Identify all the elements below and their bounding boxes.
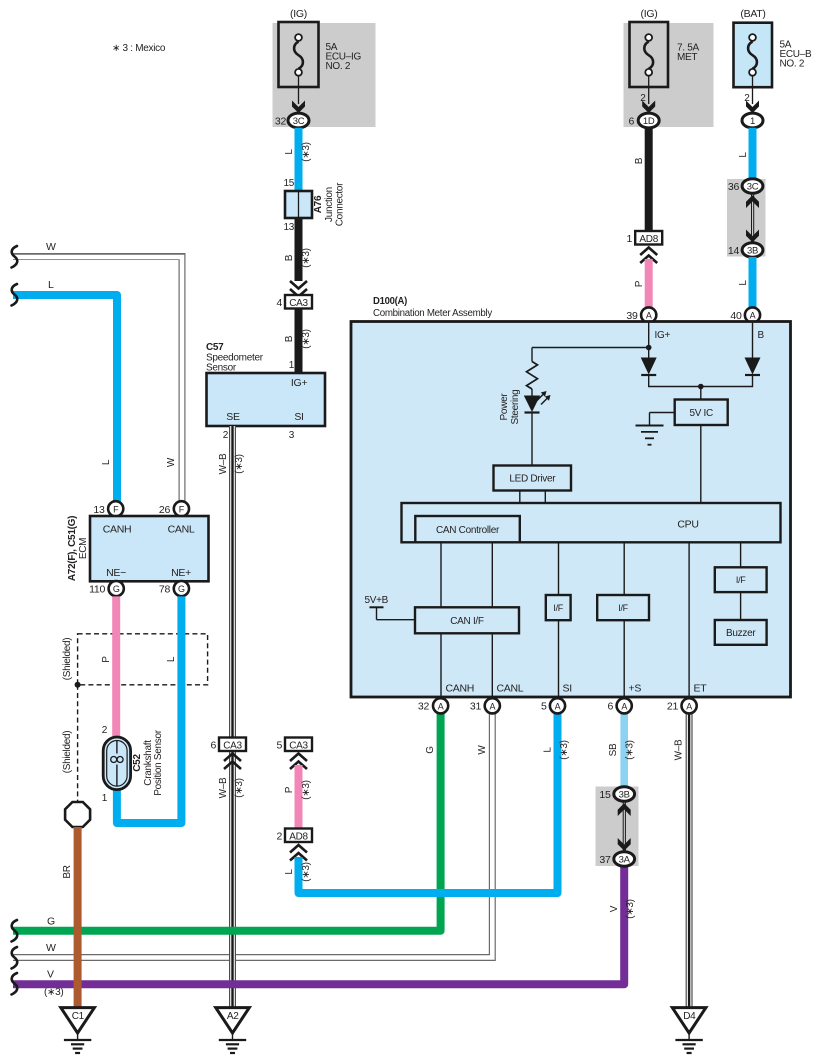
svg-text:A: A: [555, 701, 561, 711]
svg-text:14: 14: [728, 245, 740, 257]
wire B 1D to AD8 pin 1: [634, 128, 649, 231]
svg-text:ET: ET: [694, 683, 708, 695]
svg-text:C52: C52: [132, 754, 143, 772]
svg-text:(∗3): (∗3): [625, 899, 636, 918]
junction dot diode join: [698, 384, 704, 390]
svg-text:I/F: I/F: [553, 603, 563, 613]
I/F block +S: [597, 595, 649, 620]
svg-text:Buzzer: Buzzer: [726, 628, 756, 639]
svg-text:15: 15: [283, 178, 294, 189]
svg-text:(∗3): (∗3): [44, 987, 63, 998]
continuation squiggle for W: [12, 246, 18, 268]
svg-text:31: 31: [470, 701, 482, 713]
I/F block SI: [546, 595, 571, 620]
wire CANL internal: [491, 542, 493, 698]
wire +S internal: [623, 542, 625, 698]
continuation squiggle for V bus: [12, 973, 18, 995]
svg-text:(Shielded): (Shielded): [62, 731, 73, 774]
svg-text:L: L: [284, 869, 295, 875]
fuse block background left: [273, 23, 376, 127]
wire to 5V IC: [700, 387, 702, 400]
svg-text:1D: 1D: [643, 116, 655, 127]
svg-text:AD8: AD8: [289, 831, 308, 842]
svg-text:V: V: [47, 969, 54, 981]
I/F block buzzer: [715, 567, 767, 592]
junction connector A76: [283, 178, 345, 233]
svg-text:I/F: I/F: [736, 575, 746, 585]
svg-text:3A: 3A: [619, 855, 631, 866]
arrow into pin 32: [292, 101, 305, 114]
svg-text:CANH: CANH: [103, 524, 132, 536]
svg-text:SI: SI: [294, 411, 303, 423]
svg-text:1: 1: [626, 233, 632, 245]
svg-text:(∗3): (∗3): [234, 454, 245, 473]
connector oval 3B pin 14: [728, 243, 763, 257]
svg-text:B: B: [284, 254, 295, 261]
svg-text:W–B: W–B: [218, 777, 229, 798]
svg-text:(∗3): (∗3): [234, 778, 245, 797]
svg-text:+S: +S: [629, 683, 642, 695]
5V+B node: [365, 595, 416, 620]
svg-text:L: L: [101, 459, 112, 465]
continuation squiggle for L: [12, 284, 18, 306]
svg-text:(∗3): (∗3): [559, 740, 570, 759]
svg-text:(∗3): (∗3): [301, 142, 312, 161]
fuse F1 5A ECU-IG NO.2: [279, 8, 362, 104]
svg-text:(∗3): (∗3): [625, 740, 636, 759]
arrow up into 3C: [746, 195, 759, 208]
buzzer block: [715, 620, 767, 645]
svg-text:2: 2: [276, 830, 282, 842]
chevron arrows out of AD8 pin 1: [640, 248, 657, 264]
continuation squiggle for W bus: [12, 947, 18, 969]
svg-text:A: A: [646, 311, 652, 321]
connector AD8 pin 1: [626, 231, 662, 245]
svg-text:(IG): (IG): [641, 8, 658, 20]
svg-text:13: 13: [93, 504, 105, 516]
shield ground octagon: [65, 802, 90, 827]
meter pin 6 A: [607, 698, 631, 713]
svg-text:ECM: ECM: [78, 538, 89, 559]
LED power steering indicator: [499, 390, 551, 425]
wire L 3B to pin 40: [738, 257, 753, 308]
wire SI internal: [558, 542, 560, 698]
resistor (LED series): [527, 362, 538, 389]
svg-text:D4: D4: [683, 1011, 696, 1022]
svg-text:C1: C1: [72, 1011, 85, 1022]
fuse F2 7.5A MET: [630, 8, 700, 104]
bus wire G (horizontal, to CANH pin 32): [13, 712, 441, 931]
svg-text:L: L: [166, 656, 177, 662]
connector pass-through background 3C/3B right: [727, 179, 766, 257]
wire L entering from left (CANH): [13, 279, 117, 502]
meter pin 40 A: [730, 307, 760, 322]
shielded cable boundary (dashed): [62, 634, 208, 685]
svg-text:2: 2: [102, 725, 108, 736]
regulator 5V IC: [675, 400, 728, 426]
svg-text:(IG): (IG): [290, 8, 307, 20]
svg-text:(BAT): (BAT): [740, 8, 765, 20]
svg-text:D100(A): D100(A): [373, 296, 407, 307]
svg-text:W: W: [477, 745, 488, 755]
svg-text:37: 37: [599, 854, 611, 866]
wire W entering from left (plain white): [13, 241, 182, 502]
pin 6 connector oval 1D: [628, 113, 659, 128]
wire W-B ET pin 21 to ground D4: [674, 712, 690, 1009]
connector AD8 pin 2: [276, 829, 312, 843]
meter pin 31 A: [470, 698, 500, 713]
ECM pin 26 F: [159, 501, 189, 516]
svg-text:26: 26: [159, 504, 171, 516]
connector oval 3A pin 37: [599, 852, 634, 866]
svg-text:3B: 3B: [619, 790, 630, 801]
connector pass-through background 3B/3A bottom: [596, 787, 639, 867]
connector oval 3B pin 15: [599, 787, 634, 801]
meter pin 21 A: [667, 698, 697, 713]
connector oval 3C pin 36: [728, 179, 763, 193]
svg-text:(∗3): (∗3): [301, 862, 312, 881]
svg-text:W: W: [46, 241, 56, 253]
svg-text:P: P: [634, 280, 645, 287]
svg-text:21: 21: [667, 701, 679, 713]
svg-text:CAN Controller: CAN Controller: [436, 525, 500, 536]
continuation squiggle for G bus: [12, 920, 18, 942]
svg-text:13: 13: [283, 222, 294, 233]
diode D1 (IG+): [641, 358, 657, 376]
wire ET internal: [688, 542, 690, 698]
wire L (IG to junction A76): [284, 128, 312, 191]
svg-text:Position Sensor: Position Sensor: [153, 729, 164, 796]
svg-text:∗ 3 : Mexico: ∗ 3 : Mexico: [112, 43, 166, 54]
svg-text:IG+: IG+: [655, 330, 671, 341]
svg-text:CANH: CANH: [446, 683, 475, 695]
svg-text:W–B: W–B: [674, 739, 685, 760]
svg-text:CPU: CPU: [677, 519, 698, 531]
ECM A72(F) C51(G): [67, 516, 209, 581]
speedometer sensor C57: [206, 342, 325, 441]
meter pin 5 A: [541, 698, 565, 713]
shield junction dot: [75, 682, 81, 688]
connector CA3 pin 5: [276, 738, 312, 752]
junction dot IG+: [646, 345, 652, 351]
wire CPU to I/F buzzer: [740, 542, 742, 620]
wire L oval 1 to 3C: [738, 128, 753, 180]
svg-text:W–B: W–B: [218, 453, 229, 474]
svg-text:5: 5: [541, 701, 547, 713]
svg-text:6: 6: [628, 116, 634, 128]
svg-text:1: 1: [102, 793, 108, 804]
svg-text:6: 6: [210, 739, 216, 751]
svg-text:Connector: Connector: [335, 182, 346, 226]
arrow up into 3B: [618, 803, 631, 816]
wire LED to LED driver: [531, 414, 533, 466]
svg-text:A: A: [438, 701, 444, 711]
svg-text:CANL: CANL: [168, 524, 195, 536]
junction wire between 3B and 3A: [622, 801, 624, 852]
svg-text:3C: 3C: [293, 116, 305, 127]
svg-text:A: A: [489, 701, 495, 711]
LED driver block: [494, 466, 572, 491]
wire B (CA3 to C57 pin 1): [284, 309, 312, 374]
svg-text:15: 15: [599, 789, 611, 801]
connector oval 1: [742, 113, 763, 128]
svg-text:W: W: [46, 942, 56, 954]
combination meter assembly D100(A): [351, 296, 791, 697]
wire B (A76 to CA3): [284, 218, 312, 281]
svg-text:L: L: [284, 149, 295, 155]
wire diode outputs join: [649, 375, 753, 387]
bus wire V (horizontal, from connector 3A): [13, 866, 636, 999]
svg-text:6: 6: [607, 701, 613, 713]
svg-text:5V IC: 5V IC: [689, 408, 713, 419]
svg-text:CA3: CA3: [223, 740, 242, 751]
diode D2 (B): [745, 358, 761, 376]
svg-text:1: 1: [289, 360, 295, 371]
ECM pin 13 F: [93, 501, 123, 516]
wire P AD8 to pin 39: [634, 259, 649, 308]
chevron arrows out of CA3 pin 5: [290, 754, 307, 770]
ground C1: [61, 1008, 95, 1053]
svg-text:SB: SB: [608, 743, 619, 756]
svg-text:A: A: [750, 311, 756, 321]
svg-text:Steering: Steering: [510, 390, 521, 425]
ground D4: [672, 1008, 706, 1053]
svg-text:NO. 2: NO. 2: [326, 61, 351, 72]
svg-text:2: 2: [223, 430, 229, 441]
connector CA3 pin 6: [210, 738, 246, 752]
svg-text:G: G: [425, 746, 436, 754]
chevron arrows into CA3 pin 4: [290, 281, 307, 297]
svg-text:SE: SE: [226, 411, 240, 423]
svg-text:78: 78: [159, 584, 171, 596]
svg-text:A: A: [686, 701, 692, 711]
svg-text:(∗3): (∗3): [301, 329, 312, 348]
svg-text:A: A: [621, 701, 627, 711]
svg-text:NE−: NE−: [106, 567, 126, 579]
junction wire between 3C and 3B: [751, 193, 753, 243]
svg-text:(Shielded): (Shielded): [62, 638, 73, 681]
arrow into oval 1: [746, 101, 759, 114]
svg-text:B: B: [284, 335, 295, 342]
svg-text:(∗3): (∗3): [301, 780, 312, 799]
chevron arrows out of AD8 pin 2: [290, 845, 307, 861]
node B internal wire: [752, 323, 754, 358]
svg-text:P: P: [101, 656, 112, 663]
svg-text:32: 32: [275, 116, 287, 128]
CAN I/F block: [415, 607, 519, 633]
svg-text:LED Driver: LED Driver: [509, 474, 556, 485]
svg-text:Power: Power: [499, 393, 510, 421]
svg-text:CAN I/F: CAN I/F: [450, 616, 484, 627]
wire P CA3 to AD8: [284, 765, 312, 829]
svg-text:A76: A76: [313, 195, 324, 213]
svg-text:(∗3): (∗3): [301, 248, 312, 267]
wire P NE- to crank sensor pin 2: [101, 596, 116, 737]
svg-text:1: 1: [750, 116, 755, 127]
svg-text:L: L: [48, 279, 54, 291]
svg-text:5: 5: [276, 739, 282, 751]
svg-text:NO. 2: NO. 2: [780, 59, 805, 70]
CAN controller block: [415, 516, 520, 542]
svg-text:SI: SI: [563, 683, 572, 695]
svg-text:AD8: AD8: [639, 234, 658, 245]
meter pin 39 A: [626, 307, 656, 322]
svg-text:W: W: [166, 457, 177, 467]
svg-text:36: 36: [728, 181, 740, 193]
svg-text:F: F: [179, 504, 185, 514]
svg-text:CA3: CA3: [289, 740, 308, 751]
crankshaft position sensor C52: [102, 725, 164, 804]
node IG+ internal wire: [648, 323, 650, 358]
svg-text:32: 32: [418, 701, 430, 713]
svg-text:A72(F), C51(G): A72(F), C51(G): [67, 516, 78, 581]
wire W-B speedometer SE to ground A2: [218, 426, 245, 1009]
svg-text:B: B: [758, 330, 765, 341]
svg-text:V: V: [609, 905, 620, 912]
svg-text:B: B: [634, 157, 645, 164]
fuse F3 5A ECU-B NO.2: [734, 8, 812, 104]
CPU block: [402, 503, 781, 542]
arrow down into 3B: [746, 230, 759, 243]
svg-text:CANL: CANL: [497, 683, 524, 695]
wire IG+ branch to resistor: [532, 347, 649, 349]
wire SB +S pin 6 to connector 3B: [608, 712, 636, 790]
ECM pin 78 G: [159, 581, 189, 596]
svg-text:CA3: CA3: [289, 298, 308, 309]
svg-text:BR: BR: [62, 865, 73, 878]
wire BR shield octagon to ground C1: [62, 827, 78, 1010]
svg-text:3: 3: [289, 430, 295, 441]
svg-text:3C: 3C: [747, 182, 759, 193]
svg-text:L: L: [738, 152, 749, 158]
fuse block background middle: [624, 23, 714, 127]
svg-text:IG+: IG+: [291, 377, 307, 389]
svg-text:G: G: [113, 584, 120, 594]
wire 5V IC to internal ground: [650, 412, 675, 414]
connector CA3 pin 4: [276, 295, 312, 309]
svg-text:L: L: [543, 747, 554, 753]
svg-text:G: G: [178, 584, 185, 594]
internal ground: [636, 426, 664, 445]
svg-text:C57: C57: [206, 342, 224, 353]
arrow down into 3A: [618, 838, 631, 851]
svg-text:Junction: Junction: [324, 187, 335, 222]
svg-text:I/F: I/F: [618, 603, 628, 613]
svg-text:3B: 3B: [747, 246, 758, 257]
svg-text:110: 110: [89, 584, 105, 596]
svg-text:F: F: [113, 504, 119, 514]
pin 32 connector oval 3C: [275, 113, 309, 128]
svg-text:P: P: [284, 786, 295, 793]
wire L NE+ to crank sensor pin 1: [117, 596, 181, 823]
svg-text:A2: A2: [227, 1011, 239, 1022]
svg-text:L: L: [738, 280, 749, 286]
chevron arrows out of CA3 pin 6: [224, 754, 241, 770]
svg-text:MET: MET: [677, 52, 697, 63]
arrow into pin 6: [642, 101, 655, 114]
shield drain dashed wire: [62, 685, 78, 802]
meter pin 32 A: [418, 698, 448, 713]
wire CANH internal: [440, 542, 442, 698]
bus wire W (horizontal, to CANL pin 31): [13, 712, 492, 958]
wire L AD8 to SI pin 5: [284, 712, 570, 893]
svg-text:Combination Meter Assembly: Combination Meter Assembly: [373, 308, 492, 319]
svg-text:NE+: NE+: [171, 567, 191, 579]
wire 5V IC to CPU: [700, 425, 702, 504]
wires LED driver to CPU: [519, 491, 521, 504]
svg-text:5V+B: 5V+B: [365, 595, 389, 606]
svg-text:G: G: [47, 916, 55, 928]
ECM pin 110 G: [89, 581, 124, 596]
svg-text:4: 4: [276, 297, 282, 309]
ground A2: [216, 1008, 250, 1053]
